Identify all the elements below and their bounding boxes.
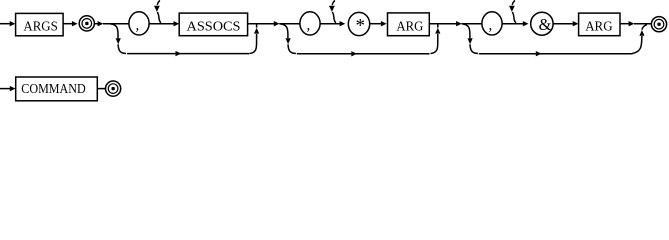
svg-text:&: &	[539, 15, 552, 34]
arrowhead up merge2	[435, 28, 440, 34]
svg-text:ARG: ARG	[396, 19, 423, 34]
circle row2	[106, 81, 121, 96]
ARGS box	[16, 13, 64, 35]
arrowhead into star oval	[340, 21, 346, 26]
wire oval amp to ARG2	[553, 23, 573, 25]
bypass wire 1	[127, 53, 249, 55]
wire ARGS to circle	[63, 23, 72, 25]
arrowhead down hook3	[509, 6, 515, 12]
svg-text:,: ,	[136, 18, 140, 34]
arrowhead after ARG1	[456, 21, 462, 26]
arrowhead up merge3	[639, 30, 644, 36]
wire ASSOCS to arrow2	[248, 23, 274, 25]
hook loop 2	[332, 0, 336, 23]
arrowhead into ASSOCS	[174, 21, 180, 26]
hook loop 1	[157, 0, 161, 23]
wire ARG2 to end circle	[620, 23, 629, 25]
arrowhead down hook1	[154, 6, 160, 12]
oval comma 3	[482, 12, 502, 35]
wire oval* to ARG1	[370, 23, 381, 25]
wire start row2	[0, 88, 10, 90]
arrowhead bypass3	[536, 51, 542, 56]
oval star	[348, 12, 369, 35]
arrowhead after ASSOCS	[274, 21, 280, 26]
arrowhead bypass2	[351, 51, 357, 56]
wire oval1 to ASSOCS	[149, 23, 174, 25]
arrowhead into circle1	[72, 21, 78, 26]
branch 2 down	[280, 24, 288, 38]
svg-text:,: ,	[307, 18, 311, 34]
arrowhead after ARG2	[629, 21, 635, 26]
oval ampersand	[531, 12, 553, 35]
arrowhead into ARGS	[10, 21, 16, 26]
svg-text:COMMAND: COMMAND	[21, 82, 85, 97]
ARG box 2	[579, 13, 620, 36]
oval comma 1	[129, 12, 149, 35]
svg-text:ASSOCS: ASSOCS	[187, 19, 241, 34]
hook loop 3	[512, 0, 516, 23]
arrowhead up merge1	[254, 28, 259, 34]
arrowhead into ARG1	[381, 21, 387, 26]
wire start row1	[0, 23, 10, 25]
wire ARG1 to branch3	[429, 23, 456, 25]
arrowhead after circle1	[98, 21, 104, 26]
wire oval3 to oval amp	[502, 23, 523, 25]
arrowhead bypass1	[176, 51, 182, 56]
svg-text:ARG: ARG	[585, 19, 612, 34]
arrowhead into amp oval	[523, 21, 529, 26]
svg-text:,: ,	[489, 18, 493, 34]
merge 1 up	[249, 24, 256, 53]
bypass wire 2	[297, 53, 430, 55]
bypass wire 3	[479, 53, 632, 55]
center dot circle row1	[85, 22, 88, 25]
wire COMMAND to circle	[97, 88, 105, 90]
wire circle to branch1	[95, 23, 98, 25]
svg-text:ARGS: ARGS	[23, 20, 57, 35]
arrowhead into ARG2	[573, 21, 579, 26]
arrowhead down branch3	[468, 38, 473, 44]
start circle row1	[79, 16, 94, 31]
end circle row1	[651, 17, 666, 32]
arrowhead into COMMAND	[10, 86, 16, 91]
merge 3 up	[632, 36, 642, 54]
center dot end circle	[657, 23, 660, 26]
arrowhead down hook2	[329, 6, 335, 12]
wire oval2 to oval*	[320, 23, 340, 25]
merge 2 up	[431, 24, 438, 53]
oval comma 2	[300, 12, 320, 35]
ARG box 1	[388, 13, 430, 36]
center dot circle row2	[112, 87, 115, 90]
arrowhead down branch2	[286, 38, 291, 44]
arrowhead down branch1	[116, 38, 121, 44]
branch 1 down	[110, 24, 118, 38]
ASSOCS box	[179, 13, 247, 36]
branch 3 down	[462, 24, 470, 38]
COMMAND box	[16, 77, 98, 101]
svg-text:*: *	[356, 16, 366, 37]
